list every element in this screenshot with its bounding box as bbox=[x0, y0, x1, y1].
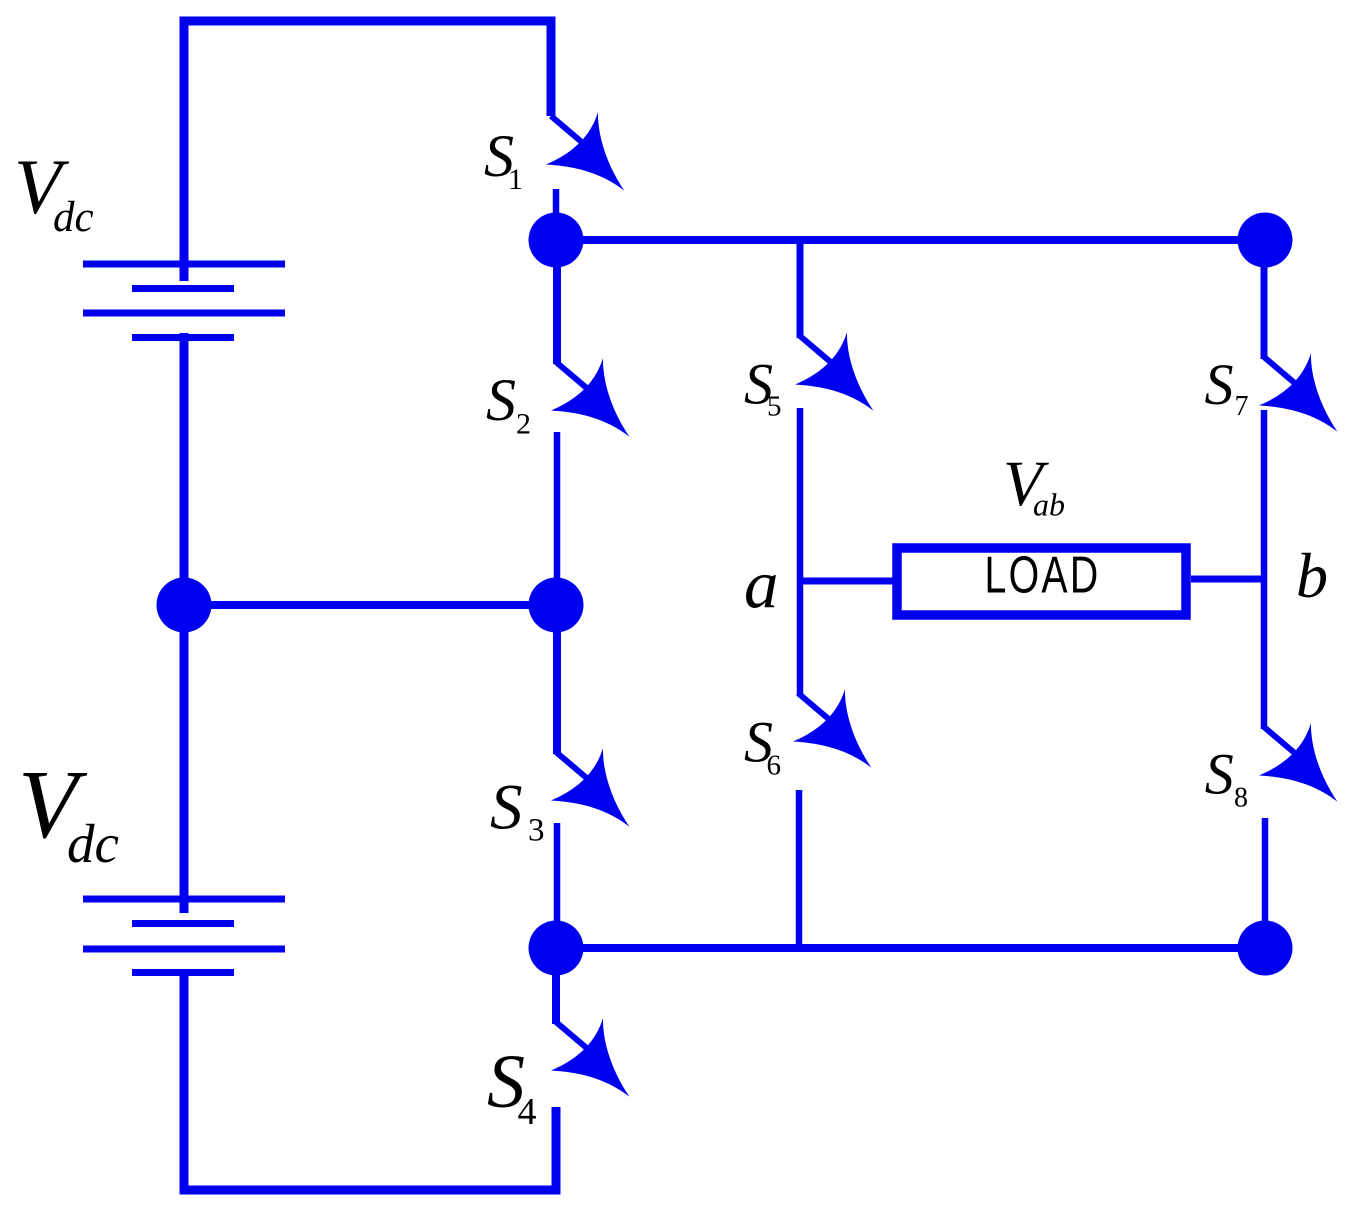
svg-text:a: a bbox=[744, 547, 779, 623]
label S2 bbox=[486, 367, 531, 440]
svg-text:S: S bbox=[490, 771, 523, 843]
svg-text:LOAD: LOAD bbox=[985, 545, 1101, 604]
wire bottom-left: battery B2 down, across, up to S4 bbox=[184, 969, 556, 1190]
svg-text:S: S bbox=[1205, 352, 1234, 417]
svg-text:2: 2 bbox=[516, 407, 531, 440]
node M (mid of leg) bbox=[529, 578, 584, 633]
node right top bbox=[1238, 213, 1293, 268]
wire top rail: left corner to S1 drop bbox=[184, 21, 551, 281]
svg-text:S: S bbox=[1205, 742, 1234, 807]
node a junction wire to LOAD bbox=[800, 578, 895, 585]
svg-text:4: 4 bbox=[518, 1091, 537, 1133]
svg-text:5: 5 bbox=[767, 391, 782, 423]
battery B2 (Vdc bottom) bbox=[83, 899, 285, 973]
label S8 bbox=[1205, 742, 1248, 814]
LOAD box bbox=[897, 548, 1186, 615]
node P (top of leg) bbox=[529, 213, 584, 268]
svg-text:S: S bbox=[486, 367, 516, 433]
label S5 bbox=[744, 352, 782, 423]
svg-text:ab: ab bbox=[1033, 487, 1065, 523]
wire top bus: node P to right node bbox=[556, 236, 1265, 244]
label Vdc bottom bbox=[18, 751, 119, 874]
svg-text:dc: dc bbox=[67, 813, 119, 874]
switch S8 bbox=[1259, 723, 1338, 948]
svg-text:b: b bbox=[1296, 540, 1328, 611]
svg-text:8: 8 bbox=[1234, 783, 1248, 814]
svg-text:dc: dc bbox=[53, 194, 94, 241]
switch S6 bbox=[793, 689, 872, 948]
node N (bottom of leg) bbox=[529, 921, 584, 976]
wire left rail: mid node to battery B2 bbox=[180, 605, 189, 913]
node right bottom bbox=[1238, 921, 1293, 976]
svg-text:1: 1 bbox=[508, 163, 523, 196]
label LOAD bbox=[985, 545, 1101, 604]
label Vdc top bbox=[14, 143, 94, 241]
switch S2 bbox=[551, 267, 630, 605]
wire bottom bus bbox=[556, 944, 1265, 952]
switch S1 bbox=[546, 112, 625, 218]
node left mid bbox=[157, 578, 212, 633]
svg-text:7: 7 bbox=[1235, 391, 1249, 422]
label S1 bbox=[484, 123, 523, 196]
svg-text:3: 3 bbox=[528, 813, 545, 849]
wire mid horizontal: left node to leg node bbox=[184, 601, 556, 609]
label Vab bbox=[1003, 448, 1065, 523]
label S4 bbox=[487, 1040, 537, 1133]
label S7 bbox=[1205, 352, 1249, 422]
node b junction wire from LOAD bbox=[1191, 576, 1265, 583]
label S6 bbox=[744, 710, 781, 782]
label S3 bbox=[490, 771, 545, 848]
switch S7 bbox=[1259, 267, 1338, 729]
switch S5 branch from top bus bbox=[795, 240, 874, 695]
switch S3 bbox=[551, 605, 630, 948]
battery B1 (Vdc top) bbox=[83, 264, 285, 338]
svg-text:6: 6 bbox=[767, 749, 782, 781]
switch S4 bbox=[551, 948, 630, 1097]
wire left rail: battery B1 to mid node bbox=[180, 333, 189, 605]
